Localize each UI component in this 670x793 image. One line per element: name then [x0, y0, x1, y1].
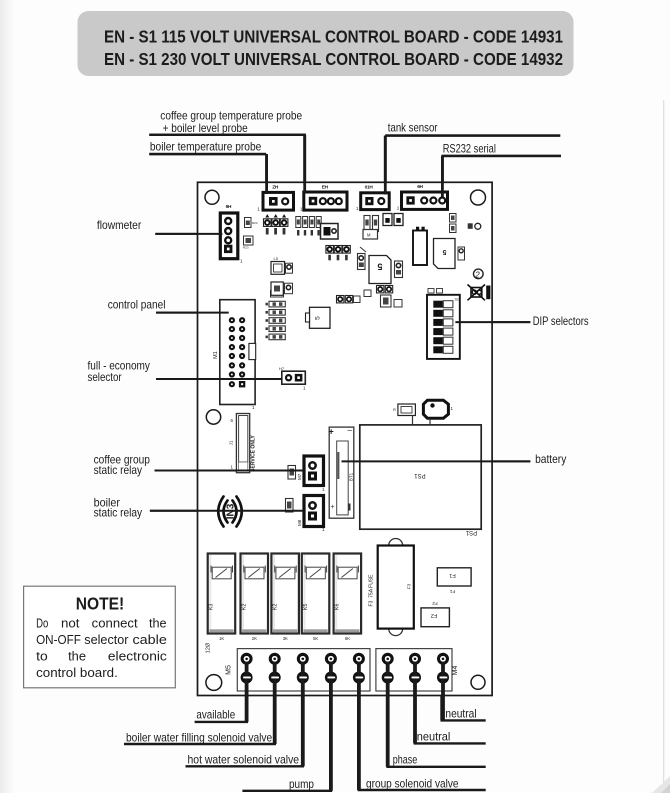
svg-text:R24: R24 [252, 221, 258, 225]
svg-text:R23: R23 [243, 246, 249, 250]
svg-text:+: + [331, 504, 335, 511]
svg-text:EN - S1 230 VOLT UNIVERSAL CON: EN - S1 230 VOLT UNIVERSAL CONTROL BOARD… [104, 49, 563, 69]
svg-text:5: 5 [442, 248, 446, 255]
svg-text:hot water solenoid valve: hot water solenoid valve [188, 752, 300, 766]
svg-text:flowmeter: flowmeter [97, 218, 141, 232]
svg-text:5: 5 [315, 316, 322, 320]
svg-text:K5: K5 [303, 604, 309, 610]
svg-text:PS1: PS1 [465, 529, 477, 535]
svg-text:2: 2 [474, 270, 480, 279]
svg-text:static relay: static relay [94, 463, 143, 477]
svg-text:connect: connect [92, 617, 138, 631]
svg-text:DIP selectors: DIP selectors [533, 314, 589, 328]
svg-text:not: not [61, 617, 80, 631]
svg-text:phase: phase [393, 752, 418, 766]
svg-text:selector: selector [88, 370, 122, 384]
svg-text:K3: K3 [209, 604, 215, 610]
svg-text:boiler temperature probe: boiler temperature probe [150, 140, 262, 154]
svg-text:L5: L5 [274, 256, 279, 261]
svg-text:S1: S1 [455, 298, 459, 302]
svg-text:1K: 1K [219, 636, 224, 641]
svg-text:PS1: PS1 [414, 472, 426, 478]
svg-text:ZH: ZH [272, 184, 279, 190]
svg-text:M5: M5 [226, 665, 233, 675]
svg-text:RS232 serial: RS232 serial [443, 142, 496, 156]
svg-text:M: M [367, 232, 371, 237]
svg-text:2K: 2K [252, 636, 257, 641]
svg-text:BT1: BT1 [349, 472, 354, 481]
svg-text:F1: F1 [449, 589, 455, 594]
svg-text:electronic: electronic [108, 650, 167, 664]
svg-text:M4: M4 [452, 666, 459, 676]
svg-text:M7: M7 [297, 473, 302, 480]
svg-text:F3: F3 [407, 583, 412, 589]
svg-text:K2: K2 [242, 604, 248, 610]
svg-text:cable: cable [133, 633, 167, 647]
svg-text:selector: selector [84, 633, 128, 647]
svg-text:control panel: control panel [108, 297, 166, 311]
svg-text:H7: H7 [279, 366, 285, 371]
svg-text:battery: battery [535, 452, 566, 466]
svg-text:static relay: static relay [94, 506, 143, 520]
svg-text:+ boiler level probe: + boiler level probe [163, 121, 248, 135]
svg-text:J1: J1 [229, 440, 234, 445]
svg-text:to: to [36, 650, 48, 664]
svg-text:neutral: neutral [417, 730, 451, 744]
svg-text:5: 5 [377, 262, 382, 272]
svg-text:neutral: neutral [445, 706, 476, 720]
svg-text:9H: 9H [226, 204, 232, 210]
svg-text:pump: pump [289, 777, 314, 791]
svg-text:SERVICE ONLY: SERVICE ONLY [251, 434, 257, 471]
svg-text:6K: 6K [345, 636, 350, 641]
svg-text:5K: 5K [313, 636, 318, 641]
svg-text:6H: 6H [417, 184, 423, 190]
svg-text:control board.: control board. [36, 666, 118, 680]
svg-text:Do: Do [36, 617, 48, 631]
svg-text:ON-OFF: ON-OFF [36, 633, 81, 647]
svg-text:–: – [348, 426, 353, 435]
svg-text:M8: M8 [297, 519, 302, 526]
svg-text:EN - S1 115 VOLT UNIVERSAL CON: EN - S1 115 VOLT UNIVERSAL CONTROL BOARD… [104, 27, 563, 47]
svg-text:K6: K6 [335, 604, 341, 610]
svg-text:F2: F2 [431, 612, 437, 618]
svg-text:M1: M1 [213, 351, 219, 359]
svg-text:K2: K2 [272, 604, 278, 610]
svg-text:NOTE!: NOTE! [76, 594, 125, 614]
svg-text:available: available [196, 708, 235, 722]
svg-text:F3 75A FUSE: F3 75A FUSE [369, 574, 375, 607]
svg-text:EH: EH [322, 184, 329, 190]
svg-text:3K: 3K [283, 636, 288, 641]
svg-text:R: R [393, 407, 396, 412]
svg-text:F2: F2 [432, 601, 438, 606]
svg-text:F1: F1 [449, 572, 455, 578]
svg-text:the: the [68, 650, 86, 664]
svg-text:the: the [149, 617, 167, 631]
svg-text:+: + [329, 427, 334, 437]
svg-text:tank sensor: tank sensor [388, 120, 438, 134]
svg-text:01H: 01H [365, 184, 374, 190]
svg-text:boiler water filling solenoid: boiler water filling solenoid valve [126, 730, 272, 744]
svg-text:12Ø: 12Ø [206, 642, 212, 653]
svg-text:group solenoid valve: group solenoid valve [366, 776, 459, 790]
